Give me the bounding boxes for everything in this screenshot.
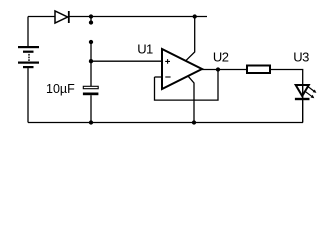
node junction dot top rail [89,14,93,18]
wire battery top lead [27,17,29,47]
wire bottom rail [28,122,303,124]
svg-text:U1: U1 [137,41,153,56]
node dot above capacitor branch [89,40,93,44]
wire op-amp output [202,69,246,71]
diode D1 [55,11,69,23]
node junction dot U2 output [216,67,220,71]
op-amp plus input marking [165,59,170,64]
svg-text:U3: U3 [293,50,309,65]
resistor R1 [247,66,270,74]
LED D2 [295,85,317,100]
svg-text:10µF: 10µF [46,82,75,96]
op-amp U1 triangle [162,49,202,89]
wire inverting input stub [155,76,163,78]
wire to op-amp noninverting input [91,60,163,62]
svg-text:U2: U2 [213,50,229,65]
node junction dot bottom rail left [89,120,93,124]
wire battery bottom lead [27,68,29,122]
wire positive supply pin [186,17,195,61]
wire negative supply pin [188,76,194,123]
wire feedback loop [155,70,219,101]
node junction dot noninverting branch [89,59,93,63]
node junction dot bottom rail supply [192,120,196,124]
node junction dot top rail supply [193,14,197,18]
wire stub below top rail [90,17,92,23]
wire capacitor branch vertical [90,42,92,61]
wire top rail left segment [28,16,55,18]
wire resistor to LED [271,70,303,86]
wire top rail right segment [70,16,208,18]
node dot stub end [89,20,93,24]
capacitor C1 polarized [83,86,99,95]
op-amp minus input marking [165,76,170,78]
wire LED vertical [302,84,304,123]
wire capacitor top lead [90,61,92,86]
wire capacitor bottom lead [90,95,92,122]
battery B1 [18,46,39,68]
